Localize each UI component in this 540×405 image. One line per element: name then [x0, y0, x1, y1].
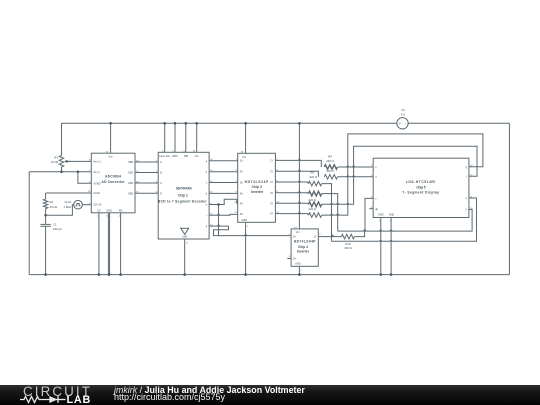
svg-text:220 Ω: 220 Ω — [326, 159, 334, 163]
wire chip4 GND — [298, 266, 300, 274]
svg-text:3A: 3A — [240, 181, 243, 184]
svg-text:2A: 2A — [240, 171, 243, 174]
footer bar — [0, 385, 540, 405]
wire row5 up loop B — [322, 146, 477, 204]
wire row2 to display — [338, 176, 374, 178]
wire ADC GND — [107, 213, 109, 275]
svg-text:V2: V2 — [401, 108, 405, 112]
wire 3Y row — [275, 182, 308, 184]
wire ADC RD — [120, 213, 122, 275]
svg-text:5Y: 5Y — [270, 202, 273, 205]
wire seg c — [209, 182, 238, 184]
wire 6Y row — [275, 213, 308, 215]
wire 2Y row — [275, 171, 318, 177]
wire seg g to chip4 — [209, 226, 291, 236]
svg-text:AD Converter: AD Converter — [102, 180, 126, 184]
wire chip2 GND — [184, 239, 186, 275]
voltage source V2 — [397, 108, 408, 129]
wire H1 — [338, 210, 472, 232]
IC HD74LS04P Chip 3 Inverter — [234, 151, 279, 228]
wire chip2 Lamp Test — [164, 123, 166, 152]
resistor R6 — [309, 181, 322, 186]
svg-text:Vin (+): Vin (+) — [93, 160, 101, 163]
svg-text:1Y: 1Y — [270, 160, 273, 163]
wire R10 out up to H1 — [355, 231, 365, 237]
wire H2 stub — [331, 237, 333, 242]
svg-text:Chip 2: Chip 2 — [178, 194, 188, 198]
wire row3 down — [322, 184, 332, 237]
wire chip2 Vcc — [196, 123, 198, 152]
wire DB2 — [135, 182, 158, 184]
svg-text:DB3: DB3 — [128, 192, 133, 195]
svg-text:Vin (-): Vin (-) — [93, 171, 100, 174]
wire chip4 Vcc (long) — [298, 123, 300, 229]
wire chip4 out — [318, 236, 341, 238]
svg-text:BCD to 7 Segment Decoder: BCD to 7 Segment Decoder — [158, 199, 207, 203]
svg-text:GND: GND — [389, 213, 395, 216]
wire seg b — [209, 171, 238, 173]
wire bottom ground rail — [29, 274, 509, 276]
svg-text:DB2: DB2 — [128, 182, 133, 185]
wire chip5 pin3 left — [365, 198, 373, 231]
resistor R7 (doubled) — [309, 191, 322, 196]
wire DB1 — [135, 172, 158, 174]
wire CLKR net — [46, 192, 92, 194]
svg-text:Chip 5: Chip 5 — [416, 185, 425, 189]
wire row1 to display — [338, 166, 374, 168]
svg-text:C: C — [160, 182, 162, 185]
wire seg a — [209, 160, 238, 162]
svg-text:GND: GND — [182, 237, 187, 239]
svg-text:CS: CS — [97, 209, 101, 212]
svg-text:1A: 1A — [293, 236, 296, 239]
svg-text:Inverter: Inverter — [297, 249, 310, 253]
IC HD74LS04P Chip 4 Inverter — [289, 227, 322, 272]
svg-text:220 Ω: 220 Ω — [309, 175, 317, 179]
wire chip2 RBI — [185, 123, 187, 152]
svg-text:4A: 4A — [240, 192, 243, 195]
IC SN7447AN Chip 2 BCD to 7 Segment Decoder — [156, 150, 213, 244]
wire chip5 pin4 stub — [369, 208, 373, 210]
svg-text:DB1: DB1 — [128, 172, 133, 175]
svg-text:R1: R1 — [54, 156, 58, 160]
svg-text:HD74LS04P: HD74LS04P — [294, 240, 316, 244]
svg-text:DB0: DB0 — [128, 161, 133, 164]
svg-text:CLK IN: CLK IN — [93, 204, 101, 207]
wire seg d — [209, 192, 238, 194]
svg-text:RBI: RBI — [184, 155, 188, 158]
svg-text:1A: 1A — [240, 160, 243, 163]
svg-text:CLK1: CLK1 — [65, 200, 72, 204]
wire 1Y row — [275, 160, 321, 167]
svg-text:http://circuitlab.com/cj5575y: http://circuitlab.com/cj5575y — [114, 392, 226, 402]
svg-text:3Y: 3Y — [270, 181, 273, 184]
resistor R5 — [324, 175, 337, 180]
svg-text:Inverter: Inverter — [251, 190, 264, 194]
resistor R8 (doubled) — [309, 202, 322, 207]
svg-text:1Y: 1Y — [314, 236, 317, 239]
svg-text:R6: R6 — [310, 170, 314, 174]
svg-text:220 Ω: 220 Ω — [308, 198, 316, 202]
wire row4 down to H1 — [322, 194, 338, 232]
svg-text:GND: GND — [378, 213, 384, 216]
svg-text:GND: GND — [295, 263, 301, 266]
wire chip2 RBO — [174, 123, 176, 152]
svg-text:6A: 6A — [240, 213, 243, 216]
potentiometer R1 — [51, 123, 92, 172]
svg-text:RD: RD — [119, 209, 123, 212]
svg-text:7- Segment Display: 7- Segment Display — [402, 191, 439, 195]
svg-text:5 V: 5 V — [401, 113, 406, 117]
svg-text:R2: R2 — [50, 200, 54, 204]
svg-text:1 MHz: 1 MHz — [63, 205, 72, 209]
clock source CLK1 — [46, 200, 92, 215]
resistor R4 (doubled) — [324, 165, 337, 170]
wire branch to chip4 — [218, 205, 220, 236]
IC LDS-HTC514RI Chip 5 7-Segment Display — [371, 158, 473, 222]
wire row6 up loop A — [322, 134, 483, 215]
wire right border — [508, 123, 510, 274]
wire ADC Vcc — [110, 123, 112, 153]
svg-text:Chip 3: Chip 3 — [252, 185, 263, 189]
svg-text:2Y: 2Y — [270, 170, 273, 173]
svg-text:+: + — [399, 121, 402, 126]
wire Vin(-) net — [29, 171, 91, 173]
svg-text:330 Ω: 330 Ω — [344, 246, 352, 250]
IC ADC0804 AD Converter — [88, 151, 140, 217]
svg-text:RBO: RBO — [172, 155, 177, 158]
wire seg e jog — [209, 199, 238, 204]
wire chip3 Vcc — [245, 123, 247, 153]
wire ADC CS — [98, 213, 100, 275]
resistor R2 — [43, 193, 57, 215]
resistor R10 — [341, 234, 354, 239]
svg-text:100 Ω: 100 Ω — [326, 169, 334, 173]
svg-text:Lamp Test: Lamp Test — [159, 155, 170, 158]
svg-text:LAB: LAB — [67, 394, 92, 405]
svg-text:10 kΩ: 10 kΩ — [51, 160, 58, 164]
wire top power rail — [62, 122, 397, 124]
svg-text:GND: GND — [242, 219, 248, 222]
wire 5Y row — [275, 202, 308, 204]
wire chip4 2A stub — [287, 258, 291, 260]
wire seg f — [209, 213, 238, 216]
wire chip3 GND — [245, 222, 247, 274]
capacitor C1 — [40, 215, 62, 274]
svg-text:HD74LS04P: HD74LS04P — [245, 180, 270, 184]
svg-text:150 pF: 150 pF — [53, 227, 62, 231]
svg-text:AGND: AGND — [93, 182, 100, 185]
svg-text:5A: 5A — [240, 202, 243, 205]
resistor R9 — [309, 213, 322, 218]
wire chip5 GND1 — [380, 218, 382, 275]
wire DB0 — [135, 161, 158, 163]
wire H2 — [332, 198, 477, 241]
wire left border — [28, 172, 30, 275]
svg-text:4Y: 4Y — [270, 192, 273, 195]
wire AGND branch — [78, 172, 91, 184]
svg-text:10 kΩ: 10 kΩ — [50, 205, 57, 209]
svg-text:CLKR: CLKR — [93, 192, 100, 195]
svg-text:D: D — [160, 192, 162, 195]
svg-text:LDS-HTC514RI: LDS-HTC514RI — [406, 180, 436, 184]
wire 4Y row — [275, 192, 308, 195]
svg-text:SN7447AN: SN7447AN — [176, 187, 192, 191]
svg-text:6Y: 6Y — [270, 213, 273, 216]
svg-text:GND: GND — [106, 209, 112, 212]
svg-text:220 Ω: 220 Ω — [308, 207, 316, 211]
wire DB3 — [135, 192, 158, 194]
svg-text:ADC0804: ADC0804 — [105, 175, 121, 179]
wire chip5 GND2 — [390, 218, 392, 275]
svg-text:2A: 2A — [293, 258, 296, 261]
